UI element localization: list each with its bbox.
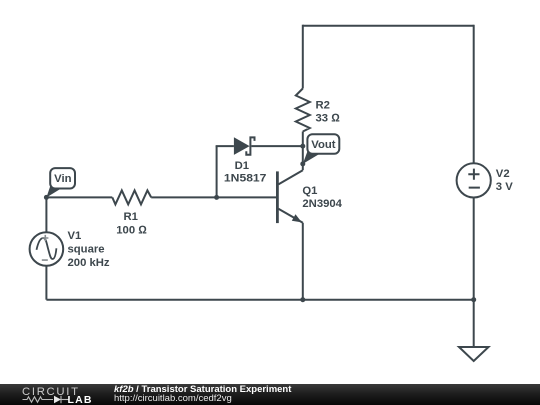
source V2: [457, 163, 491, 197]
resistor R2: [296, 89, 310, 132]
svg-text:Q1: Q1: [302, 185, 317, 197]
wire V2 top lead: [473, 25, 475, 164]
resistor R1: [112, 190, 151, 204]
svg-text:200 kHz: 200 kHz: [68, 257, 110, 269]
svg-text:R1: R1: [123, 211, 137, 223]
svg-text:square: square: [68, 243, 105, 255]
svg-text:LAB: LAB: [68, 394, 93, 405]
wire V1 bottom lead: [45, 266, 47, 300]
node junction emitter-bottom rail: [300, 297, 305, 302]
wire diode branch vertical: [216, 146, 218, 197]
svg-text:Vin: Vin: [54, 173, 71, 185]
ground: [459, 347, 489, 361]
wire R2 top lead: [302, 25, 304, 89]
transistor Q1: [276, 171, 279, 223]
label R1 value: [116, 211, 147, 236]
svg-text:2N3904: 2N3904: [302, 198, 342, 210]
node label Vout: [303, 149, 320, 164]
svg-text:100 Ω: 100 Ω: [116, 225, 147, 237]
CircuitLab logo: [21, 384, 113, 405]
wire diode anode lead: [216, 145, 234, 147]
svg-text:R2: R2: [316, 99, 330, 111]
node Vout junction: [300, 161, 305, 166]
svg-text:V1: V1: [68, 230, 82, 242]
svg-text:V2: V2: [496, 168, 510, 180]
wire ground lead: [473, 300, 475, 347]
wire Vin vertical from node to V1: [45, 197, 47, 232]
svg-text:3 V: 3 V: [496, 181, 513, 193]
source V1: [30, 232, 64, 266]
wire emitter to bottom rail: [302, 223, 304, 300]
label R2 value: [316, 99, 341, 124]
wire diode cathode to collector node: [251, 145, 302, 147]
wire V2 bottom lead: [473, 198, 475, 300]
svg-text:D1: D1: [235, 160, 249, 172]
wire top rail: [303, 25, 474, 27]
label Q1 value: [302, 185, 342, 210]
wire Vin node to R1: [46, 196, 112, 198]
footer text: [114, 386, 291, 404]
node junction diode-collector: [300, 144, 305, 149]
svg-text:33 Ω: 33 Ω: [316, 113, 341, 125]
label V1 value: [68, 230, 110, 269]
footer bar: [0, 384, 540, 405]
wire bottom rail: [46, 299, 473, 301]
wire R2 bottom to collector: [302, 132, 304, 171]
wire R1 to base: [151, 196, 276, 198]
node label Vin: [46, 185, 61, 198]
diode D1: [234, 137, 250, 155]
label V2 value: [496, 168, 513, 193]
label D1 value: [224, 160, 267, 184]
node junction R1-diode: [214, 195, 219, 200]
node junction V2-ground: [471, 297, 476, 302]
svg-text:Vout: Vout: [311, 139, 335, 151]
svg-text:1N5817: 1N5817: [224, 172, 267, 184]
